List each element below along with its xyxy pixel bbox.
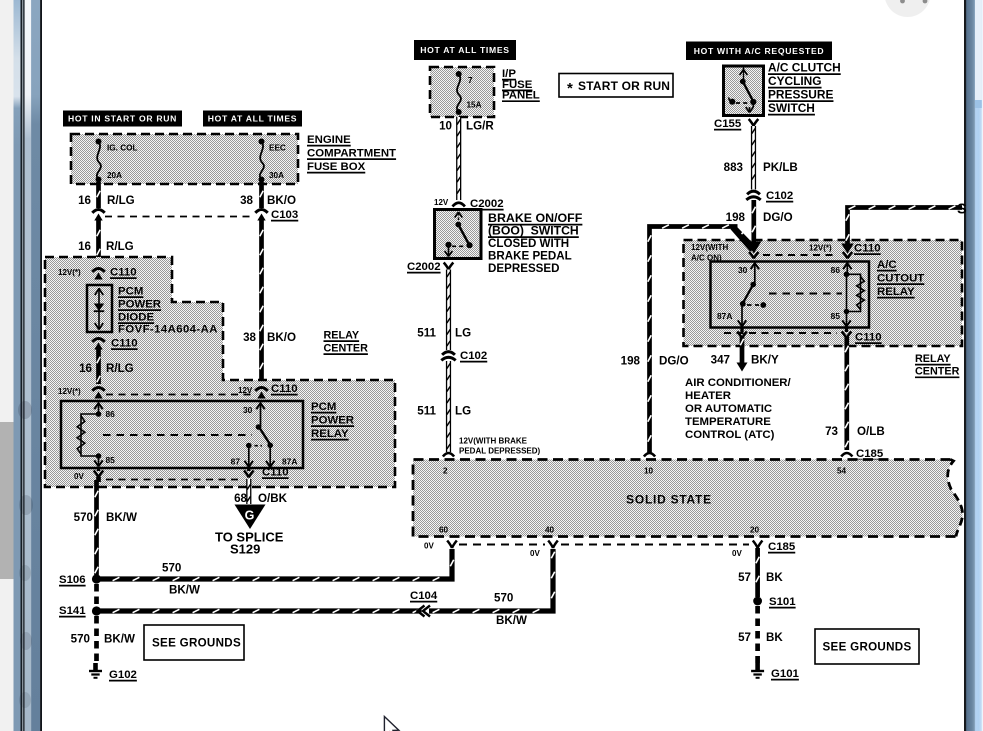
svg-text:40: 40 — [545, 526, 555, 535]
fuse 7 15A — [456, 71, 462, 77]
svg-text:SWITCH: SWITCH — [768, 101, 815, 115]
svg-text:LG: LG — [455, 327, 471, 340]
svg-text:LG: LG — [455, 405, 471, 418]
A/C cutout relay box — [711, 262, 870, 328]
fuse IG. COL 20A — [96, 139, 102, 145]
svg-text:G102: G102 — [109, 669, 137, 681]
dash between 87 and blade — [255, 445, 263, 447]
PCM relay contact 87 — [246, 443, 252, 449]
header HOT IN START OR RUN — [63, 111, 182, 127]
wire 57 BK pin 20 to S101 — [755, 548, 760, 597]
svg-text:20A: 20A — [107, 171, 122, 180]
svg-text:87: 87 — [231, 457, 241, 467]
svg-text:12V(WITH: 12V(WITH — [691, 243, 729, 252]
wire 16 R/LG fuse to C103 — [96, 182, 101, 208]
A/C relay coil — [847, 274, 861, 311]
svg-text:87A: 87A — [282, 457, 297, 467]
PCM relay switch blade — [259, 427, 270, 444]
connector fork pin 86 entry — [843, 252, 848, 259]
svg-text:CYCLING: CYCLING — [768, 74, 822, 88]
svg-text:38: 38 — [240, 194, 253, 207]
svg-text:HOT AT ALL TIMES: HOT AT ALL TIMES — [208, 114, 298, 124]
wire 68 O/BK pin 87 to splice arrow — [246, 479, 251, 504]
dashed wire 570 BK/W S141 to G102 — [94, 616, 99, 663]
left viewer edge strip — [0, 0, 14, 731]
svg-text:SOLID STATE: SOLID STATE — [626, 493, 712, 507]
svg-text:C110: C110 — [262, 467, 289, 479]
svg-text:883: 883 — [724, 161, 744, 174]
connector C110 A/C relay pin 86 — [841, 244, 854, 254]
svg-text:C110: C110 — [111, 338, 138, 350]
connector C110 pin 87A exit — [740, 327, 743, 332]
svg-text:AIR CONDITIONER/: AIR CONDITIONER/ — [685, 377, 792, 389]
svg-text:S141: S141 — [59, 605, 86, 617]
A/C clutch cycling pressure switch box — [724, 66, 764, 116]
connector at solid state pin 2 — [443, 453, 454, 457]
A/C relay mechanical link dashed — [769, 293, 842, 295]
wire 511 LG BOO to C102 — [446, 270, 451, 351]
wire 511 LG C102 to solid state pin 2 — [446, 361, 451, 452]
PCM relay coil — [96, 411, 102, 417]
svg-text:CENTER: CENTER — [324, 343, 369, 355]
svg-text:BK/W: BK/W — [104, 633, 135, 646]
wire hot feed top right with label S — [848, 208, 963, 245]
svg-text:570: 570 — [71, 633, 90, 646]
left strip shadow smudges — [18, 401, 32, 419]
svg-text:198: 198 — [621, 355, 641, 368]
svg-text:LG/R: LG/R — [466, 120, 494, 133]
svg-text:S101: S101 — [769, 596, 796, 608]
svg-text:S: S — [957, 202, 967, 218]
svg-text:16: 16 — [78, 194, 91, 207]
svg-text:BK/O: BK/O — [267, 194, 296, 207]
svg-text:0V: 0V — [74, 472, 84, 481]
svg-text:FUSE BOX: FUSE BOX — [307, 161, 366, 173]
wire 16 R/LG diode to PCM relay — [96, 348, 101, 384]
svg-text:BK/O: BK/O — [267, 331, 296, 344]
connector C110 pin 87 exit — [247, 467, 250, 471]
header HOT WITH A/C REQUESTED — [686, 42, 832, 61]
svg-text:C110: C110 — [110, 267, 137, 279]
connector at solid state pin 10 — [644, 453, 655, 457]
svg-text:C110: C110 — [855, 332, 882, 344]
svg-text:PCM: PCM — [118, 286, 143, 298]
svg-text:SEE GROUNDS: SEE GROUNDS — [823, 641, 912, 654]
splice S101 — [753, 597, 762, 606]
svg-text:10: 10 — [439, 120, 452, 133]
connector C110 relay pin 30 — [255, 388, 267, 391]
svg-text:570: 570 — [494, 592, 513, 605]
svg-text:RELAY: RELAY — [324, 330, 360, 342]
svg-text:86: 86 — [831, 265, 841, 275]
svg-text:0V: 0V — [530, 549, 540, 558]
svg-text:START OR RUN: START OR RUN — [578, 79, 670, 93]
BOO switch internals — [455, 212, 459, 218]
svg-text:DG/O: DG/O — [763, 211, 793, 224]
svg-text:PRESSURE: PRESSURE — [768, 88, 833, 102]
svg-text:PK/LB: PK/LB — [763, 161, 798, 174]
wire 38 BK/O fuse to C103 — [259, 182, 264, 208]
svg-text:12V: 12V — [434, 198, 449, 207]
connector C185 pin 40 — [548, 541, 553, 549]
svg-text:POWER: POWER — [118, 299, 161, 311]
connector C110 diode bottom — [92, 339, 104, 342]
svg-text:12V(WITH BRAKE: 12V(WITH BRAKE — [459, 437, 528, 446]
svg-text:CENTER: CENTER — [915, 366, 960, 378]
wire 883 PK/LB switch to C102 — [751, 126, 756, 190]
svg-text:PCM: PCM — [311, 401, 336, 413]
svg-text:12V: 12V — [238, 386, 253, 395]
svg-text:68: 68 — [234, 492, 247, 505]
svg-text:CLOSED WITH: CLOSED WITH — [488, 237, 569, 250]
svg-text:12V(*): 12V(*) — [58, 387, 81, 396]
svg-text:G: G — [245, 509, 255, 523]
wire 570 BK/W S106 horizontal to solid state pin 60 — [100, 549, 452, 579]
svg-text:87A: 87A — [717, 311, 732, 321]
svg-text:C102: C102 — [766, 190, 793, 202]
connector C102 right — [747, 191, 760, 194]
svg-text:BK/Y: BK/Y — [751, 354, 779, 367]
engine compartment fuse box — [71, 134, 298, 184]
PCM relay contact 87A — [269, 446, 271, 467]
PCM relay switch pin 30 — [260, 402, 262, 427]
A/C relay coil pin 85 arrow — [846, 312, 848, 327]
svg-text:BK: BK — [766, 571, 783, 584]
svg-text:30: 30 — [738, 265, 748, 275]
svg-text:PANEL: PANEL — [502, 90, 540, 102]
svg-text:C185: C185 — [768, 541, 796, 553]
svg-text:(BOO) SWITCH: (BOO) SWITCH — [488, 224, 579, 238]
connector C155 — [749, 119, 754, 126]
svg-text:*: * — [567, 80, 573, 97]
svg-text:BK: BK — [766, 631, 783, 644]
svg-text:RELAY: RELAY — [877, 286, 915, 298]
svg-text:511: 511 — [417, 405, 436, 418]
ground symbol G to splice S129 — [235, 505, 266, 530]
mouse cursor — [384, 717, 398, 731]
svg-text:S106: S106 — [59, 574, 86, 586]
connector fork pin 30 entry — [749, 252, 754, 259]
svg-text:7: 7 — [468, 76, 473, 85]
connector C104 inline — [422, 608, 430, 613]
svg-text:16: 16 — [79, 362, 92, 375]
wire 347 BK/Y with arrow to A/C-heater — [740, 337, 745, 363]
pressure switch internals — [740, 70, 744, 76]
svg-text:BRAKE PEDAL: BRAKE PEDAL — [488, 250, 572, 263]
SEE GROUNDS box left — [144, 625, 244, 660]
A/C relay pin 87A stem — [741, 304, 743, 321]
A/C relay coil pin 86 — [846, 262, 848, 275]
connector C2002 bottom — [444, 263, 449, 270]
svg-text:HOT WITH A/C REQUESTED: HOT WITH A/C REQUESTED — [694, 46, 825, 56]
svg-text:0V: 0V — [424, 542, 434, 551]
svg-text:85: 85 — [106, 455, 116, 465]
C110 dashed line at relay top — [106, 394, 252, 396]
svg-text:TEMPERATURE: TEMPERATURE — [685, 416, 771, 428]
svg-text:16: 16 — [78, 240, 91, 253]
C110 dashed line A/C relay bottom — [724, 332, 837, 334]
svg-text:C110: C110 — [271, 383, 298, 395]
wire 73 O/LB pin 85 to C185 — [844, 337, 849, 450]
svg-text:198: 198 — [726, 211, 746, 224]
svg-text:511: 511 — [417, 327, 436, 340]
svg-text:DIODE: DIODE — [118, 312, 154, 324]
svg-text:POWER: POWER — [311, 415, 354, 427]
svg-text:30A: 30A — [269, 171, 284, 180]
connector C185 pin 60 — [447, 541, 452, 549]
svg-text:86: 86 — [106, 409, 116, 419]
wire 16 R/LG C103 to C110 — [96, 219, 101, 266]
svg-text:OR AUTOMATIC: OR AUTOMATIC — [685, 403, 772, 415]
connector C2002 top — [453, 203, 465, 207]
A/C relay alternate contact dash — [747, 304, 759, 306]
ground G102 — [93, 663, 98, 670]
svg-text:C155: C155 — [714, 118, 742, 130]
svg-text:BK/W: BK/W — [106, 511, 137, 524]
svg-text:30: 30 — [243, 405, 253, 415]
connector C110 diode top — [92, 269, 104, 272]
wire 570 BK/W S141 horizontal to solid state pin 40 — [100, 549, 553, 611]
relay center stippled region (left) — [45, 257, 395, 487]
svg-text:C104: C104 — [410, 590, 438, 602]
PCM relay mechanical link dashed — [103, 434, 252, 436]
connector C110 pin 85 exit — [845, 327, 848, 332]
wire 38 BK/O C103 down to relay center — [259, 219, 264, 385]
svg-text:57: 57 — [738, 571, 751, 584]
solid state module box — [413, 460, 963, 537]
connector C185 pin 54 — [841, 453, 852, 457]
svg-text:C103: C103 — [271, 209, 298, 221]
svg-text:60: 60 — [439, 526, 449, 535]
connector C103 dashed line — [105, 216, 253, 218]
wire 570 BK/W pin85 to S106 — [94, 480, 99, 575]
svg-text:S129: S129 — [230, 542, 260, 557]
header HOT AT ALL TIMES (middle) — [414, 40, 516, 60]
I/P fuse panel box — [430, 67, 494, 117]
svg-text:54: 54 — [837, 467, 847, 476]
PCM relay coil pin 85 arrow — [98, 456, 100, 467]
svg-text:R/LG: R/LG — [107, 194, 135, 207]
PCM power relay K1 box — [61, 401, 303, 468]
svg-text:DG/O: DG/O — [659, 355, 689, 368]
svg-text:R/LG: R/LG — [106, 362, 134, 375]
svg-text:85: 85 — [831, 311, 841, 321]
svg-text:CUTOUT: CUTOUT — [877, 273, 924, 285]
connector C102 middle — [442, 352, 455, 355]
svg-text:A/C CLUTCH: A/C CLUTCH — [768, 61, 841, 75]
svg-text:G101: G101 — [771, 668, 800, 680]
svg-text:SEE GROUNDS: SEE GROUNDS — [152, 637, 241, 650]
svg-text:570: 570 — [162, 562, 181, 575]
svg-text:HEATER: HEATER — [685, 390, 731, 402]
svg-text:15A: 15A — [467, 101, 482, 110]
svg-text:C110: C110 — [854, 243, 881, 255]
connector C185 pin 20 — [753, 541, 758, 549]
svg-text:HOT AT ALL TIMES: HOT AT ALL TIMES — [420, 45, 510, 55]
connector C103 right half — [255, 210, 267, 213]
svg-text:RELAY: RELAY — [311, 428, 349, 440]
svg-text:BK/W: BK/W — [496, 614, 527, 627]
svg-text:R/LG: R/LG — [106, 240, 134, 253]
connector C110 relay pin 86 — [92, 388, 104, 391]
C185 dashed line under solid state — [459, 544, 545, 546]
SEE GROUNDS box right — [815, 629, 919, 664]
svg-text:12V(*): 12V(*) — [58, 268, 81, 277]
A/C relay center stippled region (right) — [684, 240, 963, 346]
svg-text:O/LB: O/LB — [857, 425, 885, 438]
svg-text:CONTROL (ATC): CONTROL (ATC) — [685, 429, 775, 441]
PCM power diode D1 — [87, 285, 112, 332]
svg-text:EEC: EEC — [269, 144, 286, 153]
svg-text:10: 10 — [644, 467, 654, 476]
C110 dashed line A/C relay top — [763, 254, 838, 256]
header HOT AT ALL TIMES (left) — [203, 111, 302, 127]
svg-text:IG. COL: IG. COL — [107, 144, 137, 153]
svg-text:A/C: A/C — [877, 259, 897, 271]
svg-text:20: 20 — [750, 526, 760, 535]
wire 10 LG/R fuse panel to C2002 — [456, 117, 461, 200]
svg-text:O/BK: O/BK — [258, 492, 288, 505]
C110 dashed line at relay bottom — [106, 479, 242, 481]
fuse EEC 30A — [259, 139, 265, 145]
wire 198 DG/O branch to solid state pin 10 — [650, 227, 738, 454]
PCM relay coil pin 86 arrow — [98, 402, 100, 414]
connector C103 left half — [92, 210, 104, 213]
svg-text:FOVF-14A604-AA: FOVF-14A604-AA — [118, 324, 218, 336]
A/C relay switch pin 30 — [754, 262, 756, 285]
svg-text:0V: 0V — [732, 549, 742, 558]
brake on/off BOO switch box — [435, 210, 482, 259]
svg-text:2: 2 — [443, 467, 448, 476]
arrow into A/C relay C110 — [746, 242, 761, 254]
svg-text:57: 57 — [738, 631, 751, 644]
A/C relay switch blade — [743, 285, 753, 303]
svg-text:73: 73 — [825, 425, 838, 438]
svg-text:38: 38 — [243, 331, 256, 344]
svg-text:570: 570 — [74, 511, 93, 524]
dashed wire S106 to S141 — [94, 584, 99, 606]
svg-text:HOT IN START OR RUN: HOT IN START OR RUN — [68, 114, 177, 124]
ground G101 — [755, 663, 760, 670]
svg-text:PEDAL DEPRESSED): PEDAL DEPRESSED) — [459, 447, 541, 456]
wire 198 DG/O C102 junction into A/C relay pin 30 — [751, 200, 756, 244]
connector C110 pin 85 exit — [97, 467, 100, 471]
svg-text:12V(*): 12V(*) — [809, 244, 832, 253]
dashed wire 57 BK S101 to G101 — [755, 606, 760, 663]
svg-text:C102: C102 — [460, 350, 487, 362]
top-right round button with dots — [885, 0, 931, 17]
svg-text:RELAY: RELAY — [915, 353, 951, 365]
diagonal junction piece — [731, 224, 758, 251]
svg-text:ENGINE: ENGINE — [307, 134, 351, 146]
svg-text:DEPRESSED: DEPRESSED — [488, 262, 560, 275]
svg-text:COMPARTMENT: COMPARTMENT — [307, 148, 396, 160]
note box START OR RUN — [559, 74, 673, 98]
svg-text:C2002: C2002 — [407, 261, 441, 273]
svg-text:347: 347 — [711, 354, 730, 367]
svg-text:BK/W: BK/W — [169, 584, 200, 597]
right viewer scrollbar strip — [964, 0, 983, 731]
